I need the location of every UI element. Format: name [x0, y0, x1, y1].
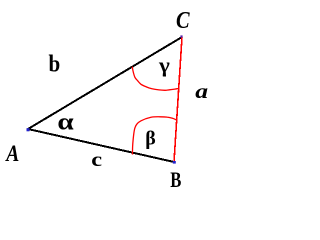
angle arc beta at B [133, 117, 178, 155]
node B blue anchor dot [173, 161, 176, 164]
node A blue anchor dot [27, 128, 30, 131]
svg-text:β: β [145, 128, 156, 150]
svg-text:α: α [57, 108, 73, 135]
svg-text:c: c [91, 148, 102, 170]
svg-text:C: C [176, 6, 191, 33]
svg-text:γ: γ [158, 53, 171, 77]
angle arc gamma at C [132, 67, 178, 91]
wire side b (A to C) [28, 37, 182, 129]
wire side c (A to B) [28, 129, 174, 162]
svg-text:a: a [195, 80, 208, 103]
svg-text:b: b [49, 50, 61, 77]
svg-text:B: B [170, 167, 181, 192]
node C blue anchor dot [180, 35, 182, 37]
wire side a (C to B) red [174, 37, 182, 162]
svg-text:A: A [4, 141, 19, 167]
